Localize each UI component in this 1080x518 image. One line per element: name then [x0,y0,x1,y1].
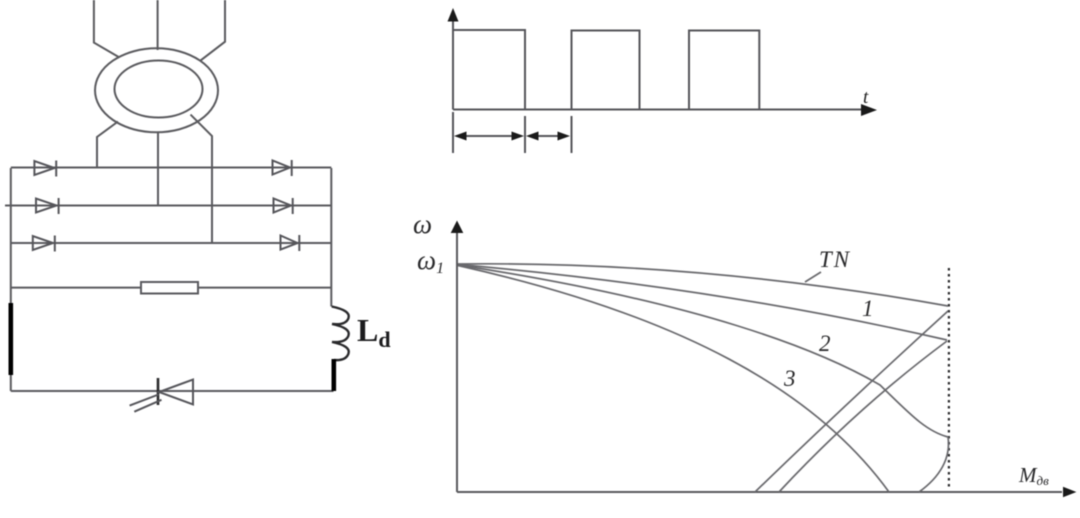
resistor R1 [141,282,198,294]
motor M1 inner ring [115,61,203,118]
wire rotor phase a [97,122,118,168]
pulse diagram axes [453,14,868,153]
leader TN [805,272,821,282]
curve TN [458,264,948,306]
arrowhead dim right [558,132,571,141]
wire rotor phase c [191,115,213,243]
svg-text:ω1: ω1 [417,245,444,277]
wire row 4 right [198,287,331,289]
wire thick below inductor [331,359,336,391]
motor M1 outer ring [95,48,218,132]
pulse 1 [453,30,525,110]
arrowhead pulse y-axis [448,8,459,22]
wire thick left bus segment [9,303,14,375]
pulse 3 [689,31,759,110]
diode V4 [273,160,292,176]
diode V3 [33,236,55,252]
thyristor VS1 cathode bar [157,378,160,405]
svg-text:1: 1 [862,296,874,321]
arrowhead dim mid-left [512,132,525,141]
wire row 3 [11,242,332,244]
curve 2 [458,265,948,437]
wire row 4 left [11,287,141,289]
svg-text:Ld: Ld [357,312,391,352]
curve TN return [755,311,948,492]
wire rotor phase b [157,132,159,206]
svg-text:3: 3 [783,366,796,391]
tick t0 [452,112,454,153]
arrowhead graph y-axis [451,221,464,234]
speed-torque graph [457,226,1062,492]
svg-text:ω: ω [413,209,432,239]
arrowhead pulse t-axis [861,104,877,116]
graph x-axis [457,491,1062,493]
pulse y-axis [452,14,454,110]
wire phase A top [94,0,119,57]
arrowhead dim mid-right [526,132,539,141]
pulse 2 [572,31,640,110]
arrowhead dim left [454,132,467,141]
thyristor VS1 triangle [159,380,193,405]
svg-text:2: 2 [819,331,831,356]
svg-text:Mдв: Mдв [1018,463,1049,488]
svg-text:TN: TN [819,247,851,272]
wire phase B top [157,0,159,50]
curve 3 [458,266,889,493]
diode V1 [34,161,56,177]
dim arrow pulse width [461,135,517,137]
pulse t-axis [453,109,868,111]
wire bottom [11,390,334,392]
dotted line max torque [948,268,950,490]
wire phase C top [200,0,225,61]
diode V6 [281,235,300,251]
wire row 1 [11,167,332,169]
tick t2 [571,116,573,153]
curve 2 return [919,437,948,492]
graph y-axis [456,226,458,492]
curve 1 return [779,341,947,492]
tick t1 [524,116,526,153]
curve 1 [458,265,947,341]
arrowhead graph x-axis [1063,487,1076,497]
svg-text:t: t [863,87,869,108]
wire row 2 [5,205,331,207]
wire right bus [330,168,332,307]
dim arrow gap [532,135,564,137]
inductor Ld coil [332,307,349,361]
thyristor VS1 gate [130,395,162,412]
wire left bus [10,168,12,391]
diode V5 [274,198,293,214]
diode V2 [36,198,59,214]
